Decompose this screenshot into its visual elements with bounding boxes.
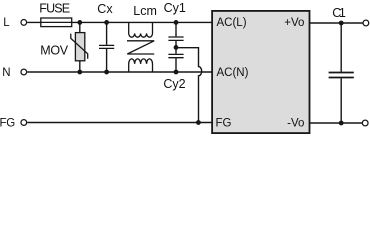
svg-text:FG: FG xyxy=(0,117,15,129)
terminal N xyxy=(21,69,27,75)
terminal -V output xyxy=(362,120,368,126)
capacitor Cx lead bottom xyxy=(106,49,108,72)
svg-text:AC(N): AC(N) xyxy=(217,67,249,79)
capacitor Cy2 lead bottom xyxy=(175,58,177,72)
svg-text:FG: FG xyxy=(216,117,232,129)
fuse F box xyxy=(41,18,72,27)
wire mid node to FG with hop over N line xyxy=(176,48,202,123)
svg-text:MOV: MOV xyxy=(40,43,68,57)
svg-text:Cy1: Cy1 xyxy=(164,1,186,15)
capacitor C1 plates xyxy=(329,73,354,78)
svg-text:Cx: Cx xyxy=(97,2,113,16)
wire -Vo xyxy=(310,122,362,124)
MOV varistor stroke xyxy=(71,34,88,59)
MOV lead wire xyxy=(79,22,81,72)
inductor Lcm core Z xyxy=(127,41,154,54)
junction dot N-Cy2 xyxy=(174,70,179,75)
capacitor Cy2 plates xyxy=(168,54,183,57)
inductor Lcm top winding xyxy=(129,22,153,37)
junction dot +Vo C1 xyxy=(339,21,344,26)
junction dot Cy mid node xyxy=(174,45,179,50)
terminal +V output xyxy=(363,20,369,26)
svg-text:1: 1 xyxy=(339,6,346,20)
inductor Lcm bottom winding xyxy=(129,59,153,72)
capacitor Cy1 lead top xyxy=(175,22,177,36)
svg-text:N: N xyxy=(2,67,10,79)
svg-text:-Vo: -Vo xyxy=(287,117,304,129)
module U1 box xyxy=(212,11,309,133)
wire L line xyxy=(27,21,212,23)
svg-text:Lcm: Lcm xyxy=(133,4,157,18)
junction dot N-Cx xyxy=(104,70,109,75)
svg-text:+Vo: +Vo xyxy=(284,17,304,29)
capacitor C1 lead top xyxy=(340,23,342,72)
capacitor Cy1 lead bottom xyxy=(175,41,177,47)
svg-text:FUSE: FUSE xyxy=(39,2,69,16)
capacitor C1 lead bottom xyxy=(340,78,342,123)
terminal FG xyxy=(21,120,27,126)
junction dot FG xyxy=(196,120,201,125)
wire +Vo xyxy=(310,22,363,24)
capacitor Cx plates xyxy=(99,45,114,48)
junction dot L-MOV xyxy=(77,20,82,25)
capacitor Cy2 lead top xyxy=(175,47,177,53)
capacitor Cy1 plates xyxy=(168,37,183,40)
wire FG line xyxy=(27,122,212,124)
capacitor Cx lead top xyxy=(106,22,108,44)
svg-text:L: L xyxy=(3,17,10,29)
MOV body xyxy=(75,33,84,61)
terminal L xyxy=(21,20,27,26)
wire N line xyxy=(27,71,212,73)
junction dot L-Cx xyxy=(104,20,109,25)
svg-text:Cy2: Cy2 xyxy=(163,77,185,91)
junction dot N-MOV xyxy=(77,70,82,75)
junction dot L-Cy1 xyxy=(174,20,179,25)
junction dot -Vo C1 xyxy=(339,121,344,126)
svg-text:AC(L): AC(L) xyxy=(217,17,247,29)
